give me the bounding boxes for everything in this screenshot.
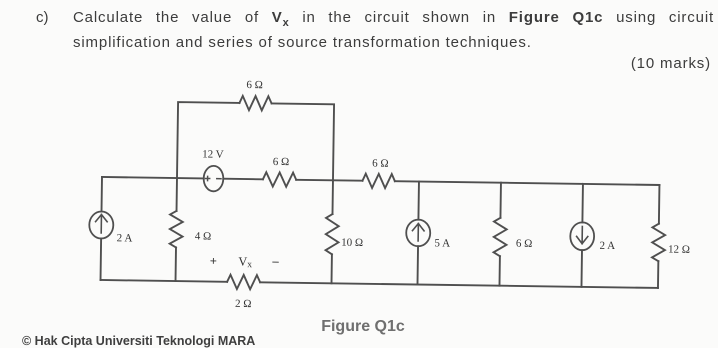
footer copyright: [22, 334, 255, 348]
svg-text:4 Ω: 4 Ω: [195, 230, 212, 242]
question text: [73, 8, 706, 52]
wire: right edge branch: [658, 185, 659, 288]
resistor 6-ohm shunt: [494, 218, 507, 257]
wire: 5A branch: [417, 182, 418, 285]
resistor 4-ohm: [170, 211, 183, 248]
wire: 4-ohm branch: [176, 178, 177, 281]
wire: 6-ohm shunt branch: [499, 183, 500, 286]
svg-text:12 V: 12 V: [202, 148, 224, 160]
svg-text:6 Ω: 6 Ω: [516, 238, 533, 250]
svg-text:6 Ω: 6 Ω: [273, 156, 290, 168]
resistor 10-ohm: [326, 214, 339, 254]
resistor 6-ohm series 1: [263, 172, 296, 187]
svg-text:6 Ω: 6 Ω: [246, 79, 263, 91]
figure caption: [0, 318, 718, 336]
resistor 2-ohm bottom: [227, 275, 260, 290]
svg-text:Vx: Vx: [238, 254, 252, 270]
current source 2A right (arrow down): [570, 222, 594, 250]
marks: [0, 55, 711, 72]
wire: bottom rail: [101, 280, 658, 288]
resistor 6-ohm series 2: [362, 174, 395, 189]
svg-text:2 A: 2 A: [599, 240, 615, 252]
svg-text:2 A: 2 A: [117, 232, 133, 244]
resistor 6-ohm top loop: [239, 96, 271, 111]
resistor 12-ohm: [652, 224, 665, 262]
wire: top node rail: [102, 177, 659, 185]
voltage source 12V: [204, 166, 224, 192]
svg-text:+: +: [210, 254, 217, 268]
wire: top feedback loop: [177, 102, 334, 180]
svg-text:5 A: 5 A: [434, 237, 450, 249]
current source 5A (arrow up): [406, 219, 430, 246]
item label c): [36, 8, 49, 27]
svg-text:6 Ω: 6 Ω: [372, 158, 389, 170]
svg-text:12 Ω: 12 Ω: [668, 244, 690, 256]
svg-text:–: –: [271, 254, 279, 268]
svg-text:10 Ω: 10 Ω: [341, 237, 363, 249]
wire: 2A right branch: [581, 184, 582, 287]
wire: 10-ohm branch: [332, 180, 333, 283]
svg-text:2 Ω: 2 Ω: [235, 298, 252, 310]
wire: left edge branch: [101, 177, 102, 280]
current source 2A left (arrow up): [89, 211, 113, 238]
